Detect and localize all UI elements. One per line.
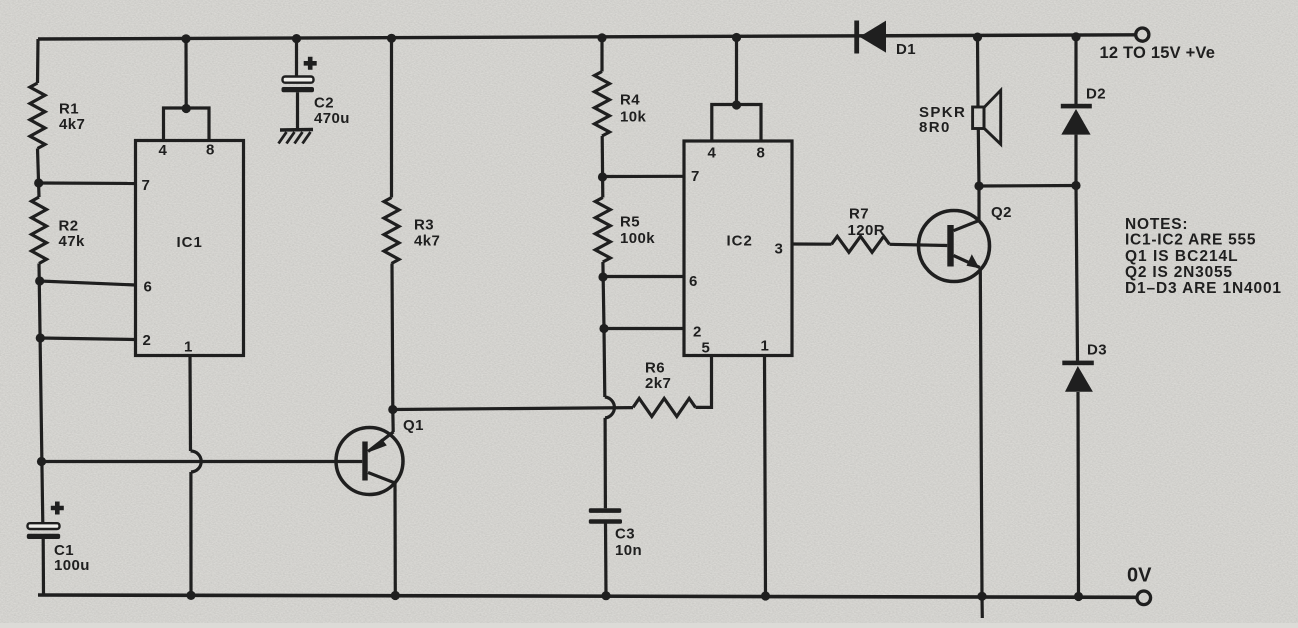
- node bottom rail at IC1 pin1: [186, 591, 195, 600]
- node speaker / Q2 collector junction: [974, 181, 983, 190]
- wire left rail between R1 and R2: [38, 149, 40, 198]
- svg-text:NOTES:: NOTES:: [1125, 216, 1188, 233]
- node left rail pin2 junction: [36, 333, 45, 342]
- wire R4 branch top: [600, 38, 603, 72]
- op-amp IC2 555 timer body: [684, 141, 792, 356]
- svg-text:R3: R3: [414, 217, 434, 234]
- svg-text:470u: 470u: [314, 110, 350, 127]
- capacitor C1: [27, 502, 90, 575]
- wire left rail below C1: [42, 539, 45, 596]
- wire IC2 pin 2: [604, 327, 684, 330]
- wire Q1 node to R6: [393, 408, 633, 410]
- svg-text:Q1 IS BC214L: Q1 IS BC214L: [1125, 248, 1239, 265]
- svg-text:8R0: 8R0: [919, 119, 951, 136]
- wire Q2 emitter to ground rail: [980, 268, 982, 596]
- svg-text:D1: D1: [896, 41, 916, 58]
- wire R6 to IC2 pin 5: [696, 356, 712, 408]
- node bottom rail at Q1: [391, 591, 400, 600]
- svg-text:10k: 10k: [620, 109, 646, 126]
- node top rail at IC2 supply: [732, 33, 741, 42]
- svg-text:D3: D3: [1087, 342, 1107, 359]
- svg-text:120R: 120R: [848, 222, 885, 239]
- node left rail Q1 base junction: [37, 457, 46, 466]
- notes text block: [1125, 216, 1282, 297]
- speaker SPKR 8R0: [919, 37, 1001, 186]
- op-amp IC1 555 timer body: [136, 141, 244, 356]
- svg-text:7: 7: [142, 177, 151, 194]
- resistor R1: [30, 83, 85, 149]
- capacitor C2: [282, 39, 350, 130]
- node R5 pin6 junction: [598, 272, 607, 281]
- wire collector node to D2-D3 node: [979, 184, 1076, 188]
- wire D3 to ground rail: [1076, 392, 1080, 597]
- svg-text:4: 4: [708, 145, 717, 162]
- node R3 / Q1 emitter / R6 junction: [388, 405, 397, 414]
- wire IC1 pin 7: [39, 181, 136, 185]
- svg-text:6: 6: [689, 273, 698, 290]
- wire top +V rail: [38, 35, 1136, 39]
- node R4/R5 pin7 junction: [598, 172, 607, 181]
- transistor Q1 BC214L: [336, 417, 424, 495]
- wire IC2 pin 3 lead: [792, 242, 832, 245]
- svg-text:2k7: 2k7: [645, 375, 671, 392]
- wire hop over R6 line: [605, 397, 615, 418]
- svg-text:Q2 IS 2N3055: Q2 IS 2N3055: [1125, 264, 1233, 281]
- svg-text:Q1: Q1: [403, 417, 424, 434]
- wire Q1 base: [42, 460, 363, 463]
- svg-text:1: 1: [184, 339, 193, 356]
- svg-text:100k: 100k: [620, 230, 655, 247]
- svg-text:R1: R1: [59, 101, 79, 118]
- node top rail at IC1 supply: [181, 34, 190, 43]
- node top rail at R4: [597, 33, 606, 42]
- wire IC2 pin 6: [603, 275, 684, 278]
- resistor R7: [832, 206, 890, 253]
- wire pin2 node to hop: [602, 329, 606, 398]
- terminal +Ve supply: [1100, 28, 1216, 62]
- svg-text:2: 2: [693, 324, 702, 341]
- svg-text:D1–D3 ARE 1N4001: D1–D3 ARE 1N4001: [1125, 280, 1282, 297]
- svg-text:4k7: 4k7: [59, 116, 85, 133]
- resistor R2: [32, 197, 85, 264]
- svg-text:R6: R6: [645, 360, 665, 377]
- wire R4 to R5: [601, 136, 605, 198]
- wire D2 branch top: [1074, 37, 1077, 104]
- diode D3: [1062, 342, 1107, 392]
- svg-text:R2: R2: [59, 218, 79, 235]
- wire IC1 pin 1 to ground rail with hop: [188, 356, 192, 452]
- svg-text:IC1-IC2 ARE 555: IC1-IC2 ARE 555: [1125, 232, 1256, 249]
- svg-text:R4: R4: [620, 92, 640, 109]
- node top rail at speaker: [973, 33, 982, 42]
- wire IC1 pins 4-8 supply bracket: [164, 108, 210, 141]
- wire Q1 emitter up to node: [391, 410, 395, 433]
- wire R7 to Q2 base: [890, 244, 948, 245]
- node top rail at R3: [387, 34, 396, 43]
- node IC2 bracket junction: [732, 100, 741, 109]
- node top rail at C2: [292, 34, 301, 43]
- wire IC1 pin 6: [40, 281, 136, 285]
- node left rail pin7 junction: [34, 178, 43, 187]
- svg-text:5: 5: [702, 340, 711, 357]
- diode D1: [854, 21, 916, 59]
- node bottom rail at C3: [601, 591, 610, 600]
- node bottom rail at D3: [1074, 592, 1083, 601]
- svg-text:8: 8: [757, 145, 766, 162]
- svg-text:3: 3: [775, 241, 784, 258]
- node bottom rail at Q2 emitter: [977, 592, 986, 601]
- resistor R4: [595, 72, 647, 137]
- svg-text:10n: 10n: [615, 542, 642, 559]
- svg-text:R5: R5: [620, 214, 640, 231]
- svg-text:C3: C3: [615, 526, 635, 543]
- node D2-D3 junction: [1071, 181, 1080, 190]
- wire R5 to pin2 node: [603, 262, 604, 329]
- wire IC2 pin 7: [603, 175, 685, 178]
- svg-text:6: 6: [144, 279, 153, 296]
- svg-text:1: 1: [761, 338, 770, 355]
- svg-text:Q2: Q2: [991, 204, 1012, 221]
- svg-text:0V: 0V: [1127, 565, 1152, 587]
- wire IC1 pin 2: [40, 338, 135, 340]
- capacitor C3: [589, 508, 642, 595]
- wire junction to D3: [1076, 186, 1078, 361]
- svg-text:47k: 47k: [59, 233, 85, 250]
- svg-text:R7: R7: [849, 206, 869, 223]
- wire left rail between R2 and C1: [39, 264, 43, 524]
- diode D2: [1061, 86, 1106, 135]
- node top rail at D2: [1071, 32, 1080, 41]
- svg-text:12 TO 15V +Ve: 12 TO 15V +Ve: [1100, 44, 1216, 62]
- node pin2 junction: [599, 324, 608, 333]
- resistor R5: [595, 198, 655, 263]
- svg-text:2: 2: [143, 332, 152, 349]
- node IC1 bracket junction: [182, 104, 191, 113]
- wire IC2 pin 1 to ground rail: [765, 356, 766, 597]
- wire D2 to junction: [1074, 135, 1077, 186]
- wire bottom 0V rail: [38, 595, 1136, 597]
- svg-text:7: 7: [691, 168, 700, 185]
- node bottom rail at IC2 pin1: [761, 591, 770, 600]
- wire R3 to Q1 emitter node: [390, 264, 394, 410]
- transistor Q2 2N3055: [919, 204, 1012, 282]
- resistor R3: [384, 198, 440, 264]
- svg-text:IC1: IC1: [177, 234, 203, 251]
- svg-text:4k7: 4k7: [414, 233, 440, 250]
- wire R3 branch upper: [390, 38, 393, 197]
- svg-text:D2: D2: [1086, 86, 1106, 103]
- wire hop to C3: [603, 418, 607, 508]
- svg-text:100u: 100u: [54, 557, 90, 574]
- node left rail pin6 junction: [35, 276, 44, 285]
- svg-text:4: 4: [159, 142, 168, 159]
- resistor R6: [633, 360, 696, 417]
- svg-text:8: 8: [206, 142, 215, 159]
- wire Q1 collector to ground rail: [393, 483, 396, 596]
- wire left rail upper segment: [36, 39, 40, 83]
- terminal 0V: [1127, 565, 1152, 605]
- wire Q2 collector up to speaker node: [977, 186, 980, 221]
- svg-text:IC2: IC2: [727, 233, 753, 250]
- ground symbol below C2: [279, 130, 314, 144]
- svg-text:C2: C2: [314, 95, 334, 112]
- wire IC2 pins 4-8 supply bracket: [712, 105, 761, 142]
